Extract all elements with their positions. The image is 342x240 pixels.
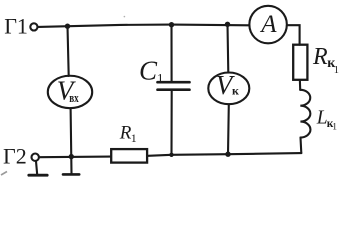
svg-text:1: 1 [332,122,337,132]
svg-text:A: A [259,11,277,38]
svg-text:C: C [139,56,158,86]
svg-text:вх: вх [69,91,79,105]
svg-text:Г1: Г1 [4,13,28,38]
svg-text:1: 1 [131,131,137,145]
svg-text:к: к [232,84,239,98]
svg-text:1: 1 [334,65,339,76]
svg-text:1: 1 [157,71,164,86]
svg-text:R: R [312,44,328,70]
svg-text:Г2: Г2 [3,144,27,169]
